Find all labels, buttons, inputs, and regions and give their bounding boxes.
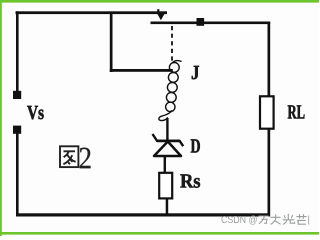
zener diode D triangle (anode, pointing up) xyxy=(154,142,181,157)
watermark glyph mang xyxy=(296,214,306,224)
zener diode D cathode bar with bent wings xyxy=(153,134,184,146)
label J xyxy=(192,66,199,79)
wire: diode anode to Rs xyxy=(164,156,166,174)
inductor ring 4 xyxy=(166,93,176,103)
inductor ring 2 xyxy=(168,73,178,83)
figure label 图2 : hand-drawn 图 glyph xyxy=(60,146,78,167)
inductor bottom swing loop xyxy=(159,111,172,121)
wire: left vertical lower (Vs negative lead) xyxy=(16,133,19,216)
dashed mechanical link from switch to relay coil J xyxy=(171,26,173,64)
wire: right vertical lower (RL to bottom rail) xyxy=(268,129,271,217)
label D xyxy=(191,139,200,152)
resistor Rs body xyxy=(159,173,172,199)
terminal: Vs bottom square xyxy=(13,126,21,134)
wire: horizontal feed to coil top xyxy=(110,69,173,72)
wire: coil bottom to zener diode xyxy=(166,118,168,143)
watermark trailing cursor i xyxy=(308,216,309,225)
wire: bottom horizontal xyxy=(16,213,270,216)
watermark glyph zhang xyxy=(271,214,281,224)
inductor ring 1 xyxy=(169,63,179,73)
label Rs xyxy=(180,174,200,187)
label Vs xyxy=(27,106,43,119)
figure label digit 2 xyxy=(80,148,91,169)
green page border top xyxy=(0,0,319,3)
watermark glyph guang xyxy=(283,214,295,225)
wire: Rs bottom lead to bottom rail xyxy=(166,198,169,214)
wire: top-left horizontal from Vs to switch contact xyxy=(16,11,168,14)
label RL xyxy=(288,105,305,118)
green page border left xyxy=(0,0,2,236)
green page border bottom xyxy=(0,232,319,235)
junction node square on top wire xyxy=(197,18,205,26)
switch J contact: arrow tick above wire xyxy=(157,9,159,14)
wire: second horizontal (switch common) to right branch xyxy=(151,22,271,25)
inductor ring 5 xyxy=(166,102,175,111)
inductor (relay coil) J : top hook xyxy=(173,61,181,63)
resistor RL body xyxy=(260,96,274,128)
svg-text:CSDN @: CSDN @ xyxy=(221,215,258,226)
switch J contact: arrow head pointing down xyxy=(157,14,165,21)
watermark glyph wan xyxy=(259,216,269,224)
inductor ring 3 xyxy=(167,83,177,93)
wire: right vertical upper (to RL) xyxy=(268,22,271,98)
wire: branch vertical from top wire down to relay coil feed xyxy=(110,12,113,72)
terminal: Vs top square xyxy=(13,91,21,99)
wire: left vertical upper (Vs positive lead) xyxy=(16,11,19,91)
